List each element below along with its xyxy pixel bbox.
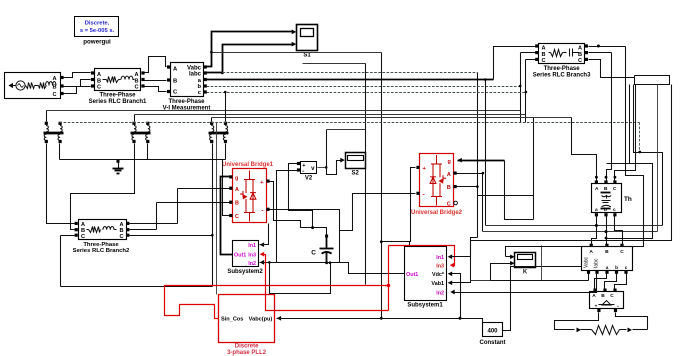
ground stub — [118, 160, 120, 161]
svg-text:Series RLC Branch3: Series RLC Branch3 — [533, 73, 591, 79]
Subsystem1 — [405, 247, 447, 301]
svg-text:Vabc: Vabc — [187, 65, 202, 71]
riser to RLC2 C in — [60, 236, 62, 287]
T3 tl riser — [211, 118, 213, 122]
Subsystem1 Out1 to Subsystem2 In2 — [260, 263, 405, 274]
wire to PLL Vabc(pu) — [277, 319, 483, 323]
Vdc* wire — [450, 274, 461, 319]
wire to UB1 C — [223, 160, 230, 216]
svg-text:B: B — [52, 85, 56, 91]
gate drop link — [505, 161, 534, 220]
RLC3 A out — [589, 46, 626, 48]
svg-text:Vabc(pu): Vabc(pu) — [249, 317, 273, 323]
red wire to Subsystem1 In3 — [389, 246, 455, 266]
wire RLC1 B to VIM B — [145, 80, 167, 82]
svg-text:S2: S2 — [352, 171, 360, 177]
svg-text:Constant: Constant — [480, 340, 506, 346]
T3 tr riser to c bus — [225, 93, 227, 122]
svg-text:A: A — [595, 186, 599, 192]
Three-Phase V-I Measurement block — [171, 63, 204, 97]
wire Subsystem2 Out1 to UB1 gate — [221, 177, 233, 255]
svg-text:Th: Th — [624, 196, 632, 203]
svg-text:C: C — [134, 85, 138, 91]
svg-text:A: A — [134, 72, 138, 78]
wire into Subsystem2 In1 — [260, 224, 269, 245]
svg-text:In1: In1 — [436, 255, 444, 261]
svg-text:B: B — [601, 293, 605, 299]
wire to Subsystem1 In1 — [450, 85, 672, 257]
svg-text:B: B — [173, 79, 177, 85]
scope S1 — [297, 25, 318, 51]
stub RLC3 C — [526, 59, 536, 61]
svg-text:In2: In2 — [436, 290, 444, 296]
svg-text:C: C — [311, 250, 316, 257]
svg-text:C: C — [578, 58, 582, 64]
staircase wire 2b — [607, 164, 653, 239]
svg-text:Out1: Out1 — [234, 253, 246, 259]
riser x482 — [482, 174, 484, 232]
staircase wire 1 — [634, 85, 663, 226]
UB1 + to capacitor — [270, 182, 327, 237]
RLC3 C out — [589, 60, 635, 78]
load resistor R — [557, 329, 575, 331]
svg-text:a: a — [595, 208, 598, 213]
wire Vabc branch under S1 — [212, 52, 382, 54]
svg-text:Subsystem2: Subsystem2 — [227, 269, 263, 275]
svg-text:C: C — [542, 58, 546, 64]
Three-Phase Series RLC Branch3 — [539, 44, 585, 64]
wire RLC1 C to VIM C — [145, 87, 167, 92]
svg-text:In2: In2 — [248, 261, 256, 267]
wire c riser RLC3 C / t-bus2 — [525, 60, 527, 123]
svg-text:Discrete,: Discrete, — [85, 21, 110, 27]
cap bottom tie — [326, 253, 328, 263]
svg-text:-: - — [261, 208, 263, 215]
RLC3 B out — [589, 52, 612, 54]
T3 bl long drop — [212, 144, 214, 287]
constant output wire — [503, 267, 582, 331]
V2 - branch — [277, 171, 299, 263]
T2 tl riser — [134, 115, 136, 122]
svg-text:-: - — [617, 304, 619, 310]
RLC2 C out — [130, 235, 213, 237]
svg-text:C: C — [235, 214, 239, 220]
svg-text:C: C — [613, 186, 617, 192]
svg-text:B: B — [235, 201, 239, 207]
svg-text:S1: S1 — [303, 53, 311, 59]
t-busD dashed — [60, 122, 640, 124]
svg-text:A: A — [542, 46, 546, 52]
UB2 - to rail — [340, 194, 416, 231]
svg-text:Three-Phase: Three-Phase — [544, 66, 581, 72]
Three-Phase V-I Measurement1 (rotated) — [582, 247, 633, 271]
wire Iabc to scope S1 — [207, 45, 293, 73]
svg-text:400: 400 — [487, 329, 498, 335]
VIM2 Iabc to In2 — [453, 274, 597, 293]
neutral bus — [60, 159, 226, 161]
phase A staircase to scope K — [506, 47, 644, 257]
V2 + branch — [289, 164, 313, 228]
Th c to VIM2 C — [615, 215, 623, 246]
scope S2 — [346, 153, 366, 169]
Vabc drop to PLL line — [381, 53, 383, 319]
Th a to VIM2 A — [592, 215, 597, 246]
svg-text:Vdc*: Vdc* — [432, 272, 445, 278]
svg-text:-: - — [423, 192, 425, 199]
vertical wire x477 — [477, 73, 479, 238]
svg-text:Series RLC Branch1: Series RLC Branch1 — [89, 99, 147, 105]
wire to scope S2 — [327, 130, 342, 175]
T1 br drop — [59, 144, 61, 160]
VIM2 c to rect C — [615, 274, 627, 291]
transformer T1 — [45, 122, 48, 125]
svg-text:c: c — [625, 265, 628, 270]
UB2 + drop wire — [382, 168, 416, 242]
Universal Bridge2 (red) — [420, 154, 454, 207]
svg-text:g: g — [235, 176, 238, 182]
UB2 A out — [457, 173, 483, 175]
svg-text:A: A — [235, 187, 239, 193]
Subsystem2 — [233, 241, 259, 267]
Three-Phase Series RLC Branch1 — [95, 69, 141, 91]
svg-text:c: c — [613, 208, 616, 213]
svg-text:+: + — [595, 304, 598, 309]
resistor return to rect - — [616, 313, 648, 330]
svg-text:B: B — [604, 186, 608, 192]
svg-text:A: A — [447, 172, 451, 178]
VIM2 Vabc sig to K — [491, 280, 589, 282]
svg-text:Universal Bridge1: Universal Bridge1 — [222, 162, 274, 168]
three-phase source block — [5, 73, 61, 99]
Th A feed from t-bus3 — [572, 118, 597, 183]
UB2 B out — [457, 186, 478, 188]
svg-text:C: C — [81, 234, 85, 240]
bus y225 — [486, 225, 663, 227]
red wire to Subsystem2 In3 — [262, 255, 389, 311]
svg-text:In3: In3 — [248, 253, 256, 259]
wire source B to RLC1 B — [64, 80, 91, 87]
K bottom input — [491, 264, 512, 281]
svg-text:A: A — [589, 249, 593, 255]
svg-text:B: B — [605, 249, 609, 255]
UB2 gate wire — [458, 160, 505, 162]
svg-text:C: C — [52, 92, 56, 98]
long vertical x216 — [216, 123, 218, 295]
K top input stub — [506, 256, 512, 258]
vertical wire x533 — [533, 118, 535, 220]
svg-text:A: A — [578, 46, 582, 52]
svg-text:Vabc: Vabc — [584, 256, 590, 268]
svg-text:3-phase PLL2: 3-phase PLL2 — [227, 350, 267, 356]
RLC2 A out — [130, 223, 178, 225]
stub RLC2 C — [61, 235, 75, 237]
wire bus y63 — [303, 63, 366, 65]
T3 br drop — [225, 144, 227, 160]
svg-text:Out1: Out1 — [406, 272, 418, 278]
svg-text:A: A — [52, 76, 56, 82]
stub RLC3 B — [521, 52, 536, 54]
branch to Subsystem1 top — [382, 242, 410, 246]
thin link to K line — [471, 246, 542, 281]
svg-text:-: - — [302, 168, 304, 175]
wire b riser RLC3 B / t-bus1 — [520, 53, 522, 123]
VIM2 Vabc drop — [588, 274, 590, 281]
svg-text:K: K — [523, 270, 528, 276]
svg-text:C: C — [447, 202, 451, 208]
Th b to VIM2 B — [606, 215, 608, 246]
svg-text:b: b — [615, 265, 618, 270]
wire source C to RLC1 C — [64, 87, 91, 94]
t-bus3 — [212, 117, 572, 119]
svg-text:In1: In1 — [248, 243, 256, 249]
svg-text:Iabc: Iabc — [189, 72, 202, 78]
ground — [117, 160, 120, 163]
svg-text:b: b — [604, 207, 607, 213]
svg-text:Three-Phase: Three-Phase — [168, 99, 205, 105]
T2 br drop — [147, 144, 149, 160]
svg-text:C: C — [119, 234, 123, 240]
svg-text:Vab1: Vab1 — [431, 281, 444, 287]
svg-text:Sin_Cos: Sin_Cos — [221, 317, 243, 323]
constant 400 block — [483, 323, 503, 337]
diode rectifier bridge — [590, 292, 624, 309]
svg-text:C: C — [620, 249, 624, 255]
svg-text:Three-Phase: Three-Phase — [99, 93, 136, 99]
svg-text:Discrete: Discrete — [235, 344, 259, 350]
wire Iabc extension bus — [223, 72, 478, 74]
riser x177 — [177, 189, 179, 224]
Three-Phase Series RLC Branch2 — [79, 220, 127, 240]
wire c bus — [207, 92, 526, 94]
wire to UB1 A — [178, 188, 230, 190]
svg-text:g: g — [448, 159, 451, 165]
phase C to Th — [615, 85, 636, 183]
svg-text:V2: V2 — [305, 176, 313, 182]
capacitor C — [326, 237, 328, 249]
VIM2 a to rect A — [595, 274, 607, 291]
svg-text:C: C — [97, 85, 101, 91]
svg-text:B: B — [447, 185, 451, 191]
Th three-phase load block — [592, 184, 622, 213]
wire a bus — [207, 79, 494, 81]
lower link wire — [270, 263, 331, 294]
svg-text:Universal Bridge2: Universal Bridge2 — [411, 210, 463, 216]
T2 bl to RLC2 B — [71, 144, 135, 230]
bus y231 — [483, 231, 658, 233]
wire b bus — [207, 86, 521, 88]
Vab1 wire from Iabc ext — [450, 238, 478, 283]
wire RLC1 A to VIM A — [145, 57, 167, 73]
wire y195 link — [478, 195, 534, 197]
red wire PLL Sin_Cos bus — [165, 286, 389, 319]
svg-text:A: A — [97, 72, 101, 78]
svg-text:Subsystem1: Subsystem1 — [407, 302, 443, 308]
wire to UB1 B — [157, 202, 230, 204]
svg-text:a: a — [606, 265, 609, 270]
scope K — [515, 253, 536, 268]
right wire loop — [635, 76, 670, 85]
Discrete 3-phase PLL2 (red) — [219, 295, 275, 343]
t-bus2 — [135, 114, 526, 116]
transformer T2 — [132, 122, 135, 125]
svg-text:C: C — [610, 293, 614, 299]
svg-text:s = 5e-005 s.: s = 5e-005 s. — [80, 28, 115, 34]
riser x485 — [485, 80, 487, 226]
bottom left bus y286 — [61, 286, 213, 288]
svg-text:Iabc: Iabc — [594, 258, 600, 268]
powergui block — [75, 17, 119, 37]
vertical wire x365 — [365, 64, 367, 285]
staircase wire 2a — [629, 85, 631, 164]
phase B to Th — [607, 53, 612, 183]
wire source A to RLC1 A — [64, 73, 91, 78]
t-bus1 — [47, 110, 521, 112]
svg-text:powergui: powergui — [83, 39, 111, 46]
link y129 — [327, 129, 366, 131]
wire Vabc to scope S1 — [207, 32, 293, 67]
RLC2 B out — [130, 229, 157, 231]
svg-text:Series RLC Branch2: Series RLC Branch2 — [73, 248, 130, 254]
red vertical x388 — [388, 246, 390, 311]
transformer T3 — [210, 122, 213, 125]
UB1 - rail — [270, 210, 340, 263]
wire a riser to RLC3 A — [494, 47, 536, 80]
svg-text:In3: In3 — [436, 263, 444, 269]
riser x156 — [156, 203, 158, 230]
svg-text:Three-Phase: Three-Phase — [83, 242, 119, 248]
t-busD drop — [639, 123, 641, 153]
V2 signal out — [318, 167, 327, 169]
svg-text:A: A — [592, 293, 596, 299]
T1 bl to RLC2 A — [47, 144, 75, 224]
right vertical x657 — [657, 85, 659, 232]
rect + to resistor — [555, 313, 599, 330]
T1 tl riser — [46, 111, 48, 122]
voltage measurement V2 — [301, 162, 317, 174]
VIM2 b to rect B — [605, 274, 617, 291]
